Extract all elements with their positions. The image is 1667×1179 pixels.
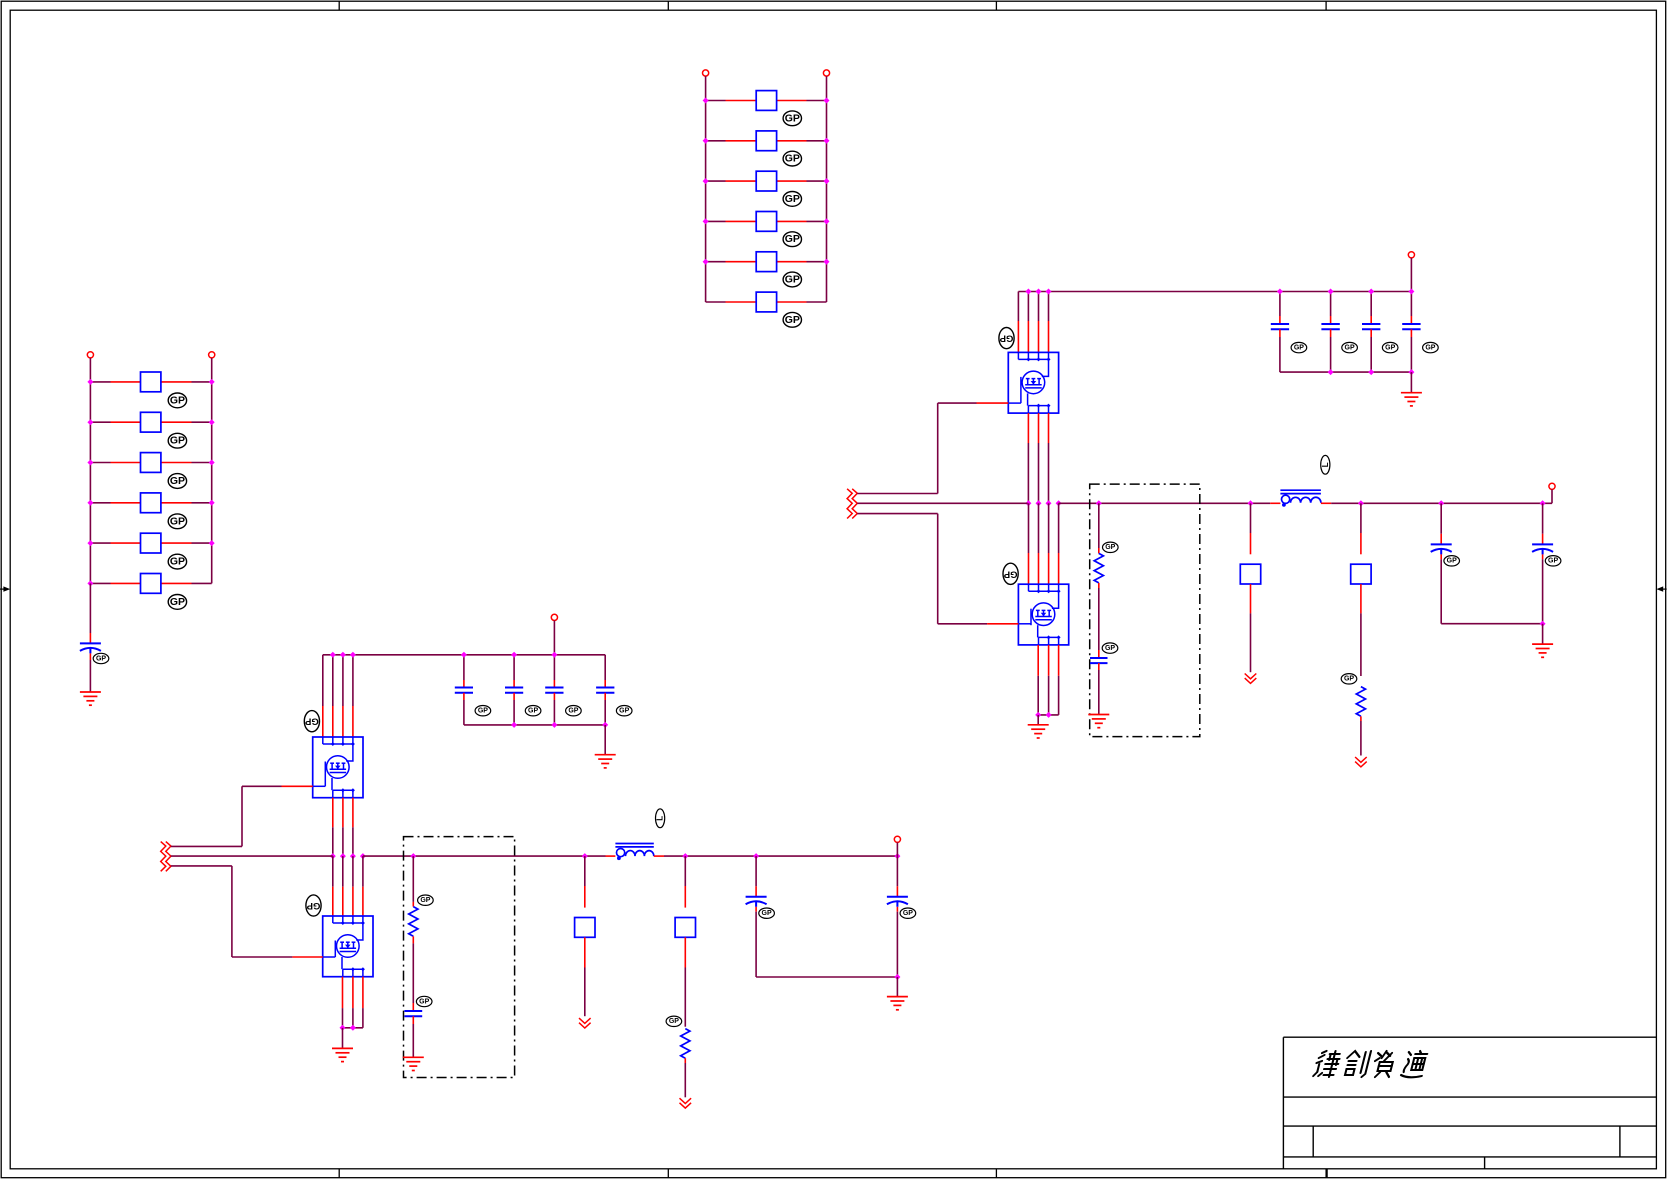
junction node rung 3 [703, 178, 830, 184]
svg-text:GP: GP [785, 112, 800, 124]
resistor R8 [141, 412, 161, 432]
left centre arrow [0, 586, 10, 591]
junction node C6 [1438, 500, 1444, 506]
wire [553, 693, 555, 725]
junction nodes input bank bottom left [511, 722, 608, 728]
wire Q3 drain pins [323, 655, 353, 737]
wire [412, 1016, 414, 1057]
wire [584, 937, 586, 1016]
wire inductor to output [1321, 502, 1552, 504]
port P1 (top ladder left) [703, 70, 709, 76]
wire [463, 655, 465, 688]
junction node rung 3 (left ladder) [87, 460, 214, 466]
label GP Q2 [1003, 563, 1018, 584]
wire Q3 source pins to switch node [333, 798, 353, 856]
transistor Q4 (low-side MOSFET) [323, 916, 373, 977]
label C5 [1423, 342, 1439, 352]
wire [1370, 292, 1372, 325]
resistor R11 [141, 533, 161, 553]
wire [1440, 554, 1442, 623]
wire [1410, 258, 1412, 292]
Wistron logo text [1313, 1051, 1428, 1077]
capacitor C14 (output) [887, 897, 908, 907]
wire Q2 drain pins [1029, 503, 1059, 584]
resistor R18 [675, 918, 695, 938]
svg-text:GP: GP [478, 708, 488, 715]
svg-text:L: L [656, 816, 665, 821]
top margin zone ticks [339, 1, 1326, 10]
ground (snubber) [1088, 715, 1109, 728]
wire [1250, 584, 1252, 672]
wire switch bus from connector [171, 855, 333, 857]
svg-text:GP: GP [568, 708, 578, 715]
capacitor C4 (input bank) [1362, 324, 1380, 329]
ground (Q4 source) [332, 1048, 353, 1061]
wire [1250, 503, 1252, 554]
wire [1542, 554, 1544, 623]
wire gate bus 2 [857, 513, 937, 515]
wire [604, 725, 606, 755]
resistor R14 [1351, 564, 1371, 584]
junction node R14 [1358, 500, 1364, 506]
label GP R8 [168, 433, 186, 448]
wire [684, 856, 686, 908]
junction node R18 [682, 853, 688, 859]
wire input bank bottom bus [1280, 371, 1412, 373]
wire [89, 583, 91, 643]
wire [1098, 503, 1100, 553]
wire [755, 856, 757, 897]
wire Q2 source pins to ground join [1038, 645, 1058, 715]
capacitor C1 (left ladder bulk) [80, 643, 101, 653]
junction node rung 5 (left ladder) [87, 540, 214, 546]
capacitor C2 (input bank) [1271, 324, 1289, 329]
resistor R2 [756, 131, 776, 151]
junction node rung 4 [703, 218, 830, 224]
port P7 (left circuit input) [551, 614, 557, 620]
resistor R6 [756, 292, 776, 312]
label C11 [566, 706, 582, 716]
wire Q4 drain pins [333, 856, 363, 916]
capacitor C9 (input bank) [455, 688, 473, 693]
junction nodes switch bus [1025, 500, 1061, 506]
wire rung 5 (top ladder) [706, 261, 827, 263]
label GP Q4 [306, 895, 321, 916]
inductor L2 [615, 844, 653, 861]
junction node rung 1 [703, 98, 830, 104]
label L2 [656, 809, 665, 828]
snubber box (right circuit) [1090, 484, 1200, 736]
capacitor C5 (input bank) [1402, 324, 1420, 329]
wire rung 2 (left ladder) [90, 421, 211, 423]
resistor R1 [756, 91, 776, 111]
wire Q1 drain pins [1018, 292, 1048, 353]
port P5 (right circuit input) [1408, 252, 1414, 258]
junction node snubber left [410, 853, 416, 859]
resistor R4 [756, 212, 776, 232]
label GP R6 [783, 312, 801, 327]
label C15 [416, 996, 432, 1006]
port P2 (top ladder right) [823, 70, 829, 76]
capacitor C7 (output) [1532, 544, 1553, 554]
wire [1279, 292, 1281, 325]
svg-text:GP: GP [170, 515, 185, 527]
svg-text:GP: GP [306, 900, 320, 911]
label GP R9 [168, 474, 186, 489]
wire top bus (right circuit) [1018, 291, 1411, 293]
port P6 (right circuit output) [1549, 483, 1555, 489]
wire [706, 76, 827, 100]
svg-text:GP: GP [785, 193, 800, 205]
junction node rung 5 [703, 259, 830, 265]
wire Q4 source pins to ground join [343, 977, 363, 1028]
wire [513, 693, 515, 725]
capacitor C10 (input bank) [505, 688, 523, 693]
wire switch bus to inductor [1059, 502, 1281, 504]
wire rung 4 (top ladder) [706, 220, 827, 222]
label C1 [93, 653, 109, 663]
wire [1360, 584, 1362, 676]
label C9 [475, 706, 491, 716]
ground (output caps left) [887, 997, 908, 1010]
label R16 [1341, 674, 1357, 684]
label C10 [525, 706, 541, 716]
resistor R15 (snubber) [1094, 553, 1103, 583]
wire [1360, 716, 1362, 755]
wire right rail (top ladder) [826, 101, 828, 303]
capacitor C15 (snubber) [404, 1011, 422, 1016]
label L1 [1321, 455, 1330, 474]
junction node snubber [1096, 500, 1102, 506]
resistor R5 [756, 252, 776, 272]
wire [896, 907, 898, 977]
svg-text:GP: GP [903, 910, 913, 917]
svg-text:GP: GP [419, 998, 429, 1005]
label C12 [616, 706, 632, 716]
wire rung 1 (top ladder) [706, 100, 827, 102]
label C8 [1102, 643, 1118, 653]
svg-text:GP: GP [785, 274, 800, 286]
wire switch bus to inductor left [363, 855, 616, 857]
junction node rung 6 (left ladder) [87, 580, 93, 586]
label C4 [1382, 342, 1398, 352]
svg-text:GP: GP [170, 394, 185, 406]
resistor R10 [141, 493, 161, 513]
label GP R7 [168, 393, 186, 408]
port P8 (left circuit output) [894, 836, 900, 842]
wire Q1 gate [938, 403, 1009, 493]
svg-text:GP: GP [170, 475, 185, 487]
svg-text:GP: GP [170, 556, 185, 568]
label C3 [1342, 342, 1358, 352]
wire Q1 source pins to switch node [1028, 413, 1048, 503]
inductor L1 [1280, 490, 1321, 507]
wire rung 5 (left ladder) [90, 542, 211, 544]
svg-text:GP: GP [785, 233, 800, 245]
svg-text:GP: GP [1105, 544, 1115, 551]
junction node C13 [753, 853, 759, 859]
transistor Q1 (high-side MOSFET) [1008, 352, 1058, 413]
svg-text:GP: GP [1385, 344, 1395, 351]
junction node C7 [1540, 500, 1546, 506]
wire right rail (left ladder) [211, 382, 213, 584]
wire rung 6 (top ladder) [706, 301, 827, 303]
svg-text:GP: GP [762, 910, 772, 917]
junction node rung 4 (left ladder) [87, 500, 214, 506]
ground (output caps) [1532, 644, 1553, 657]
label R19 [418, 895, 434, 905]
svg-text:GP: GP [785, 153, 800, 165]
resistor R9 [141, 453, 161, 473]
resistor R17 [575, 918, 595, 938]
svg-text:GP: GP [1425, 344, 1435, 351]
resistor R20 [681, 1029, 690, 1059]
off-page connector (right circuit gate drives) [847, 489, 857, 519]
transistor Q2 (low-side MOSFET) [1018, 584, 1068, 645]
junction node rung 1 (left ladder) [87, 379, 214, 385]
svg-text:GP: GP [528, 708, 538, 715]
off-page connector (left circuit gate drives) [161, 842, 171, 872]
junction nodes input bank top left [461, 652, 558, 658]
wire gate bus 1 [171, 845, 242, 847]
wire left rail (left ladder) [89, 382, 91, 584]
svg-text:GP: GP [619, 708, 629, 715]
wire [684, 937, 686, 1026]
wire [1360, 503, 1362, 554]
wire input bank bottom bus left [464, 724, 605, 726]
wire inductor to output left [654, 855, 898, 857]
port P4 (left ladder right) [209, 352, 215, 358]
capacitor C13 (output) [746, 897, 767, 907]
wire switch bus from connector [857, 502, 1027, 504]
svg-text:GP: GP [1105, 645, 1115, 652]
ground (input bank) [1401, 393, 1422, 406]
power arrow (R20) [680, 1098, 692, 1108]
wire [1551, 489, 1553, 503]
svg-text:GP: GP [1344, 676, 1354, 683]
capacitor C8 (snubber) [1090, 658, 1108, 663]
label GP R3 [783, 192, 801, 207]
wire Q2 gate [938, 514, 1019, 624]
label GP R5 [783, 272, 801, 287]
wire [604, 655, 606, 688]
wire [1370, 329, 1372, 372]
title block frame [1283, 1037, 1656, 1178]
label GP R11 [168, 554, 186, 569]
capacitor C11 (input bank) [545, 688, 563, 693]
wire left rail (top ladder) [705, 101, 707, 303]
wire rung 1 (left ladder) [90, 381, 211, 383]
junction nodes switch bus left [330, 853, 366, 859]
wire [513, 655, 515, 688]
svg-text:L: L [1321, 462, 1330, 467]
svg-text:GP: GP [1003, 568, 1017, 579]
label R15 [1103, 542, 1119, 552]
wire rung 4 (left ladder) [90, 502, 211, 504]
wire [604, 693, 606, 725]
resistor R13 [1240, 564, 1260, 584]
wire [1410, 292, 1412, 325]
right centre arrow [1656, 586, 1666, 591]
svg-text:GP: GP [669, 1018, 679, 1025]
capacitor C12 (input bank) [596, 688, 614, 693]
svg-text:GP: GP [96, 655, 106, 662]
wire [89, 653, 91, 692]
svg-text:GP: GP [304, 716, 318, 727]
wire rung 3 (left ladder) [90, 462, 211, 464]
bottom margin zone ticks [339, 1169, 1326, 1178]
label C7 [1545, 556, 1561, 566]
wire [1330, 292, 1332, 325]
wire [896, 842, 898, 856]
wire [1330, 329, 1332, 372]
junction nodes input bank bottom [1328, 369, 1415, 375]
capacitor C6 (output) [1431, 544, 1452, 554]
svg-text:GP: GP [420, 897, 430, 904]
wire [896, 977, 898, 997]
label C2 [1291, 342, 1307, 352]
wire rung 3 (top ladder) [706, 180, 827, 182]
wire [553, 655, 555, 688]
wire [584, 856, 586, 908]
svg-text:GP: GP [170, 435, 185, 447]
wire [1542, 624, 1544, 644]
snubber box (left circuit) [404, 837, 515, 1078]
junction node C14 [894, 853, 900, 859]
wire [1098, 583, 1100, 658]
wire [1098, 663, 1100, 714]
label GP Q3 [304, 711, 319, 732]
wire [412, 936, 414, 1011]
power arrow (R13) [1245, 674, 1257, 684]
junction nodes Q3 top bus [330, 652, 356, 658]
label GP R10 [168, 514, 186, 529]
junction node output gnd left [894, 974, 900, 980]
wire [1037, 715, 1039, 725]
svg-text:GP: GP [1294, 344, 1304, 351]
ground (left ladder) [80, 692, 101, 705]
ground (input bank left) [595, 755, 616, 768]
junction nodes Q2 source [1035, 712, 1051, 718]
label C14 [900, 908, 916, 918]
resistor R3 [756, 171, 776, 191]
capacitor C3 (input bank) [1321, 324, 1339, 329]
wire Q3 gate [242, 786, 313, 846]
label C13 [759, 908, 775, 918]
wire [755, 907, 757, 977]
power arrow (R17) [579, 1018, 591, 1028]
wire gate bus 1 [857, 493, 937, 495]
label GP Q1 [999, 328, 1014, 349]
junction node R13 [1248, 500, 1254, 506]
wire [553, 621, 555, 655]
wire [1542, 503, 1544, 544]
wire top bus (left circuit) [323, 654, 605, 656]
wire [90, 358, 211, 382]
resistor R7 [141, 372, 161, 392]
label GP R12 [168, 595, 186, 610]
svg-text:GP: GP [1447, 558, 1457, 565]
resistor R12 [141, 574, 161, 594]
wire [1279, 329, 1281, 372]
junction nodes Q1 top bus [1025, 289, 1051, 295]
wire [463, 693, 465, 725]
wire output caps bottom left [756, 976, 897, 978]
label R20 [666, 1016, 682, 1026]
label GP R4 [783, 232, 801, 247]
wire [1410, 329, 1412, 372]
wire [1440, 503, 1442, 544]
power arrow (R16) [1355, 757, 1367, 767]
ground (Q2 source) [1028, 725, 1049, 738]
junction node R17 [582, 853, 588, 859]
junction node output gnd [1540, 621, 1546, 627]
resistor R19 (snubber) [409, 907, 418, 937]
svg-text:GP: GP [170, 596, 185, 608]
wire Q4 gate [232, 866, 323, 957]
wire [896, 856, 898, 897]
junction nodes input bank top [1277, 289, 1415, 295]
junction nodes Q4 source [340, 1025, 356, 1031]
junction node rung 2 [703, 138, 830, 144]
label GP R1 [783, 111, 801, 126]
port P3 (left ladder left) [87, 352, 93, 358]
wire gate bus 2 [171, 865, 232, 867]
svg-text:GP: GP [999, 333, 1013, 344]
junction node rung 2 (left ladder) [87, 419, 214, 425]
resistor R16 [1356, 687, 1365, 717]
wire [1410, 372, 1412, 393]
wire [684, 1058, 686, 1097]
svg-text:GP: GP [1548, 558, 1558, 565]
transistor Q3 (high-side MOSFET) [313, 737, 363, 798]
wire [412, 856, 414, 907]
ground (snubber left) [403, 1057, 424, 1070]
wire [342, 1028, 344, 1049]
svg-text:GP: GP [1345, 344, 1355, 351]
label GP R2 [783, 151, 801, 166]
wire output caps bottom [1441, 623, 1542, 625]
svg-text:GP: GP [785, 314, 800, 326]
wire rung 6 (left ladder) [90, 582, 211, 584]
wire rung 2 (top ladder) [706, 140, 827, 142]
label C6 [1444, 556, 1460, 566]
